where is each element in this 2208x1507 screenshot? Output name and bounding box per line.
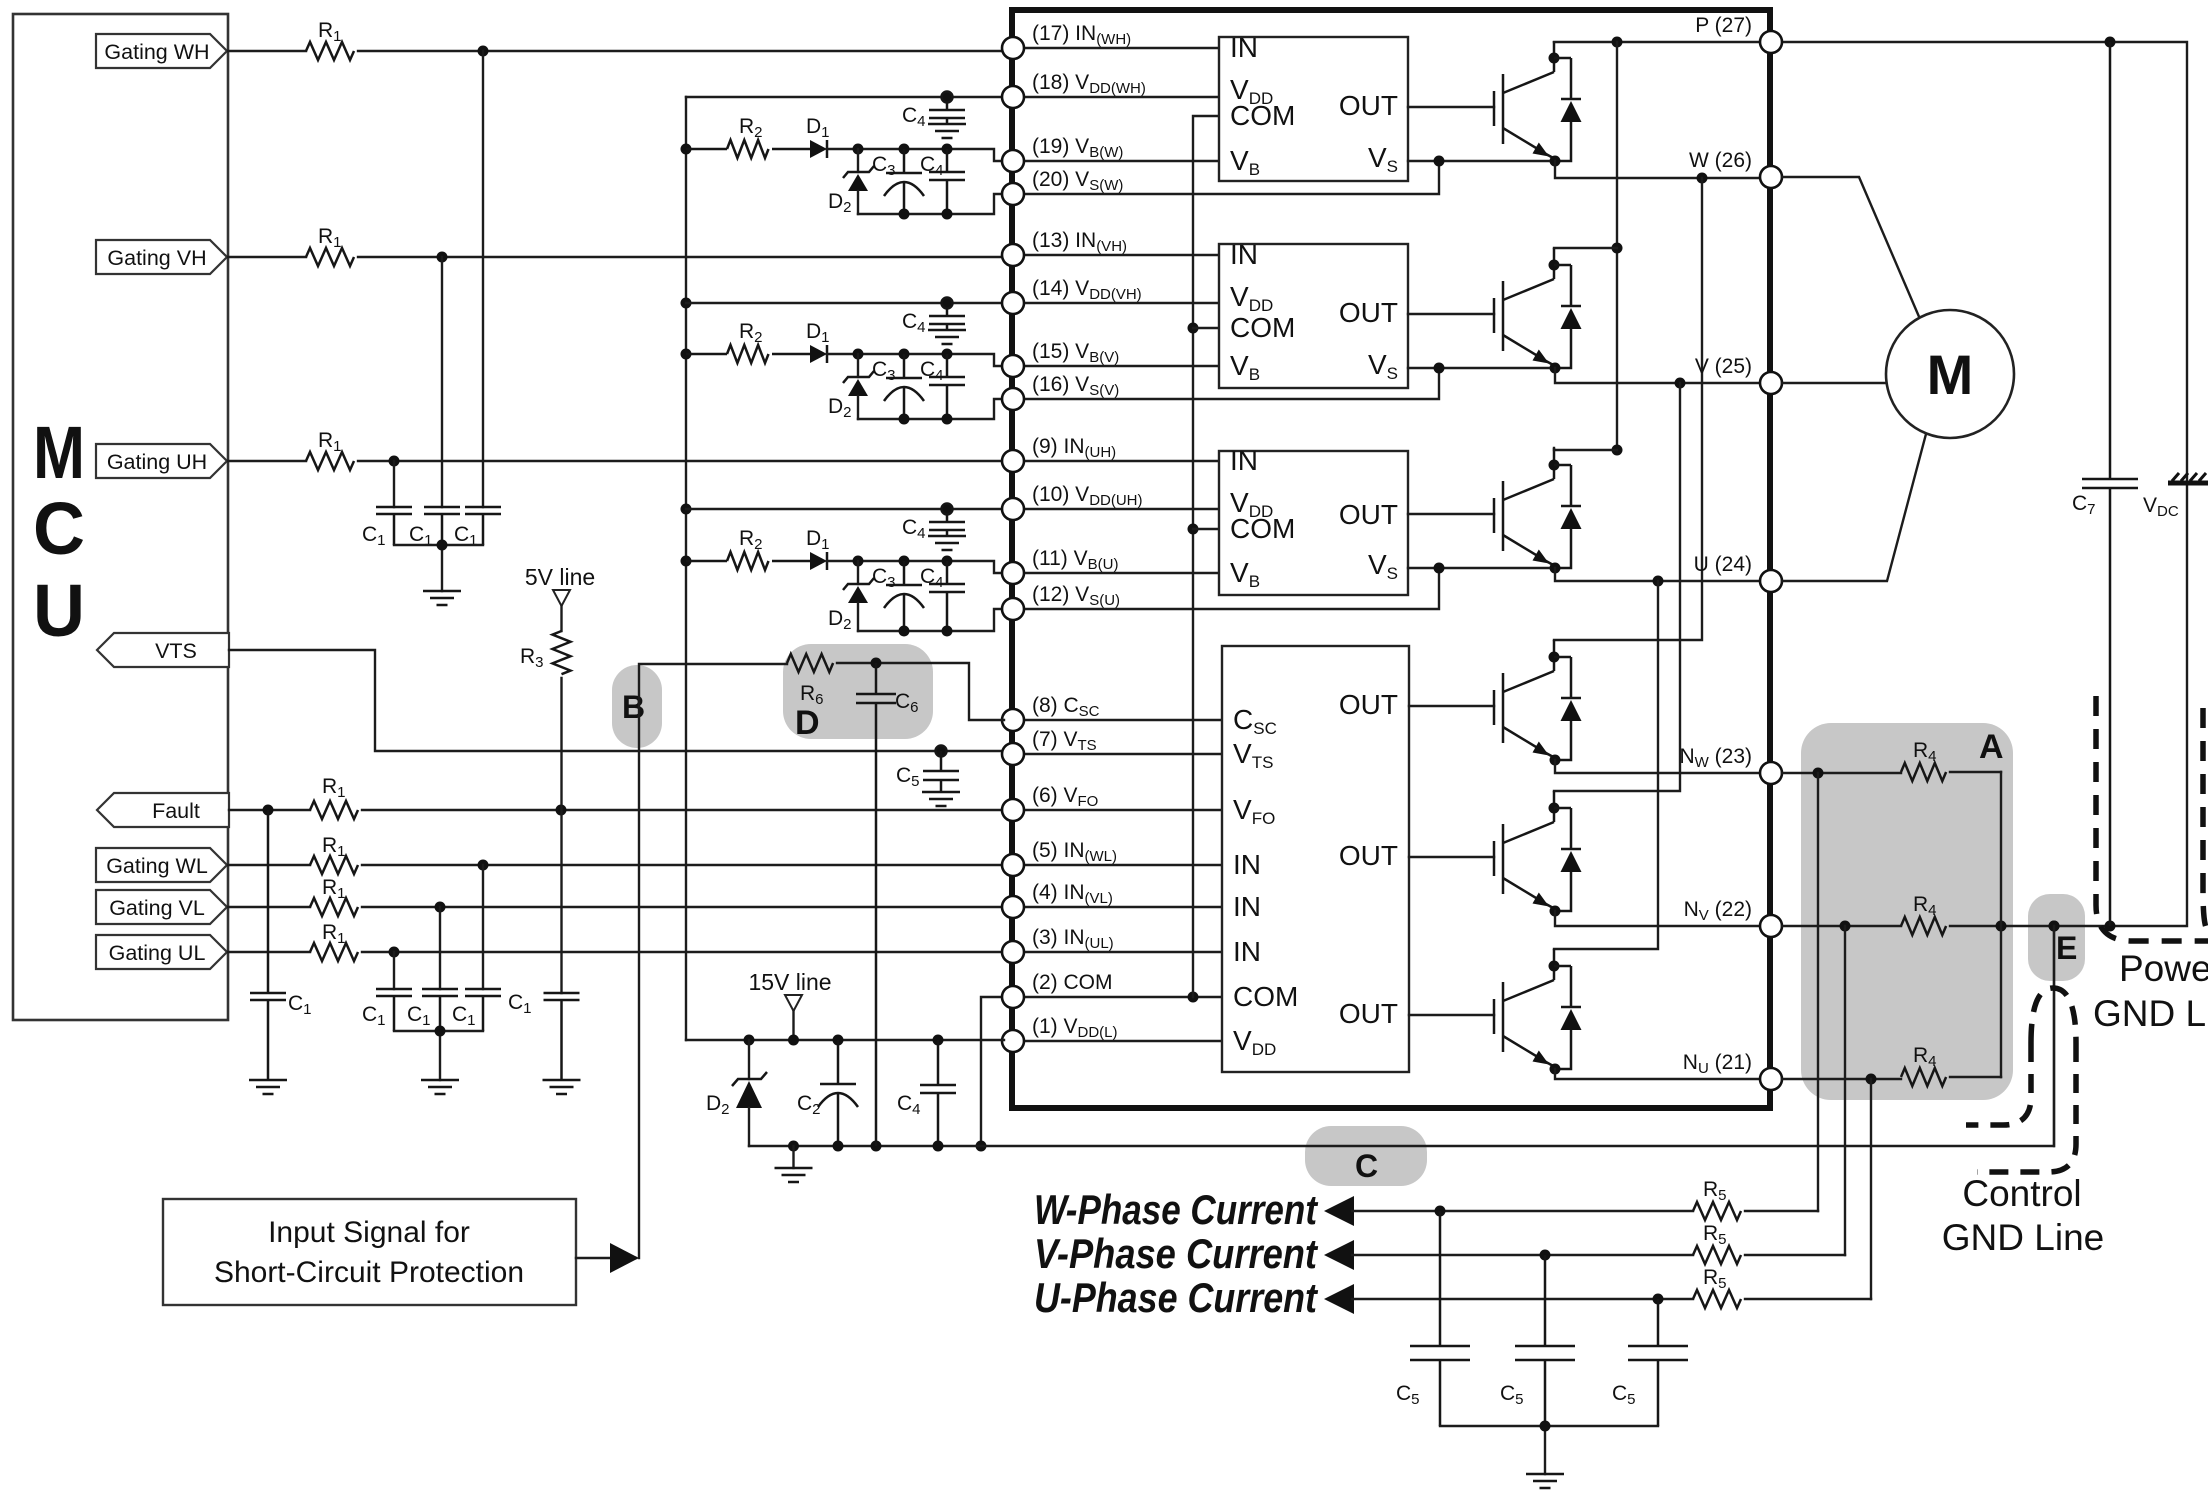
ground (C5 VTS): [922, 792, 960, 806]
svg-text:COM: COM: [1230, 100, 1295, 131]
wire pin13 IN(VH) stub: [1022, 254, 1219, 256]
capacitor C3 (bootstrap U, electrolytic): [872, 561, 924, 631]
capacitor C4 (bootstrap W): [920, 149, 965, 214]
wire V-sense vertical (x=1845): [1844, 926, 1846, 1255]
pin circle and label: (3) IN(UL): [1002, 926, 1114, 963]
wire pin15 VB stub: [1022, 365, 1219, 367]
svg-text:OUT: OUT: [1339, 297, 1398, 328]
svg-text:OUT: OUT: [1339, 840, 1398, 871]
wire C1 stems from gating WH/VH/UH lines: [394, 51, 483, 507]
capacitor C4 (VDD VH decoupling): [902, 298, 965, 337]
transistor Q1 (W high-side IGBT with freewheel diode): [1494, 41, 1582, 167]
wire NW shunt line: [1782, 768, 2001, 779]
motor M: [1886, 310, 2014, 438]
IPM module outline (thick border): [1012, 10, 1770, 1108]
pin circle and label: (19) VB(W): [1002, 135, 1123, 172]
pin circle and label: (16) VS(V): [1002, 373, 1119, 410]
svg-text:OUT: OUT: [1339, 90, 1398, 121]
svg-text:OUT: OUT: [1339, 689, 1398, 720]
wire NU emitter line: [1555, 1069, 1760, 1079]
capacitor C4 (15V decoupling): [897, 1040, 956, 1146]
pin circle and label: (7) VTS: [1002, 728, 1097, 765]
wire NV emitter line: [1555, 911, 1760, 926]
wire NV / E line: [1782, 921, 2185, 932]
pin circle and label: (17) IN(WH): [1002, 22, 1131, 59]
resistor R1 on IN(UL): [310, 921, 358, 961]
wire gate lead high-V: [1408, 313, 1494, 315]
wire VDD(UH) pin10 line: [686, 508, 1004, 510]
svg-text:Gating UH: Gating UH: [107, 450, 207, 474]
pin circle and label: (9) IN(UH): [1002, 435, 1116, 472]
pin circle and label: V (25): [1695, 355, 1782, 394]
wire pin10 VDD stub: [1022, 508, 1219, 510]
resistor R5 (V row): [1693, 1222, 1741, 1264]
zener diode D2 (bootstrap W): [828, 149, 874, 216]
capacitor C5 (x=1545 phase filter): [1500, 1255, 1575, 1426]
resistor R1 on Fault net: [310, 775, 358, 819]
resistor R5 (W row): [1693, 1178, 1741, 1220]
wire VS(U) net: [1408, 563, 1549, 574]
callout capsule D (gray): [783, 644, 933, 739]
wire W-to-lowside collector riser (x=1702): [1554, 178, 1702, 640]
zener diode D2 (bootstrap U): [828, 561, 874, 633]
wire V phase output: [1555, 368, 1760, 389]
callout capsule B (gray): [612, 665, 662, 748]
pin circle and label: (2) COM: [1002, 971, 1113, 1008]
wire C1 stems from gating WL/VL/UL lines: [394, 865, 483, 989]
svg-text:C: C: [33, 487, 85, 570]
resistor R6: [787, 654, 833, 708]
ground (top C1 group): [423, 591, 461, 605]
pin circle and label: (13) IN(VH): [1002, 229, 1127, 266]
power symbol: 5V line supply: [525, 564, 595, 631]
gate driver block U1 (WH high side): [1219, 32, 1408, 181]
ground (C4 VH decoupling): [928, 330, 966, 344]
capacitor C4 (VDD UH decoupling): [902, 504, 965, 543]
svg-text:IN: IN: [1233, 891, 1261, 922]
transistor Q3 (U high-side IGBT with freewheel diode): [1494, 448, 1582, 574]
svg-text:M: M: [33, 411, 85, 494]
wire pin4 IN(VL) stub: [1022, 906, 1222, 908]
dashed Control GND corridor: [1966, 988, 2076, 1172]
wire R6/C6 node to pin8 CSC: [837, 658, 1004, 721]
wire U-sense vertical (x=1871): [1870, 1079, 1872, 1299]
wire R4 common vertical (x=2001): [2000, 772, 2002, 1077]
wire W phase output: [1555, 161, 1760, 184]
capacitor C2 (15V electrolytic): [797, 1040, 858, 1146]
wire V-phase current line with arrow: [1324, 1240, 1845, 1270]
capacitor C6: [856, 663, 919, 1146]
pin circle and label: (6) VFO: [1002, 784, 1098, 821]
wire gate lead low-W: [1409, 705, 1494, 707]
svg-text:IN: IN: [1230, 239, 1258, 270]
ground (bottom C1 group): [421, 1080, 459, 1094]
svg-text:V (25): V (25): [1695, 355, 1752, 378]
Input Signal for Short-Circuit Protection box: [163, 1199, 576, 1305]
svg-text:U-Phase Current: U-Phase Current: [1034, 1274, 1319, 1321]
wire COM stub driver U: [1193, 528, 1219, 530]
wire 15V VDD(L) rail: [686, 1035, 1004, 1046]
wire gate lead low-U: [1409, 1014, 1494, 1016]
wire IN(VL): Gating VL wire: [228, 902, 1004, 913]
svg-text:OUT: OUT: [1339, 998, 1398, 1029]
capacitor C1 (x=394 top group): [376, 507, 412, 545]
pin circle and label: (12) VS(U): [1002, 583, 1120, 620]
gate driver block U4 (low side + protection): [1222, 646, 1409, 1072]
capacitor C1 (x=440 bottom group): [422, 989, 458, 1031]
wire IN(VH) net: Gating VH wire: [228, 252, 1004, 263]
wire U phase output: [1555, 568, 1760, 587]
wire U phase to motor: [1782, 434, 1926, 581]
wire VDD(WH) pin18 line: [686, 96, 1004, 98]
wire bootstrap V bottom bus to VS pin: [858, 399, 1004, 425]
svg-text:A: A: [1979, 728, 2004, 766]
zener diode D2 (15V clamp): [706, 1040, 767, 1146]
svg-text:U: U: [33, 569, 85, 652]
MCU port tag: VTS: [97, 633, 229, 667]
wire control-GND rail: [749, 926, 2054, 1152]
wire C1 bottom-group common bus: [394, 1026, 483, 1081]
ground (C4 WH decoupling): [928, 124, 966, 138]
MCU port tag: Gating WH: [96, 34, 227, 68]
wire pin18 VDD stub: [1022, 96, 1219, 98]
ground (control GND): [775, 1146, 813, 1182]
wire high-side collector bus (x=1617): [1612, 42, 1623, 456]
wire pin17 IN(WH) stub: [1022, 47, 1219, 49]
wire pin14 VDD stub: [1022, 302, 1219, 304]
svg-text:NU (21): NU (21): [1683, 1051, 1752, 1077]
wire pin5 IN(WL) stub: [1022, 864, 1222, 866]
svg-text:COM: COM: [1230, 312, 1295, 343]
wire pin16 VS(V) stub: [1022, 368, 1439, 399]
svg-text:D: D: [795, 704, 820, 742]
wire gate lead low-V: [1409, 856, 1494, 858]
svg-text:Gating WH: Gating WH: [104, 40, 209, 64]
resistor R4 (V shunt): [1901, 893, 1946, 935]
capacitor C3 (bootstrap W, electrolytic): [872, 149, 924, 214]
diode D1 (bootstrap W): [806, 115, 858, 158]
pin circle and label: (18) VDD(WH): [1002, 71, 1146, 108]
transistor Q2 (V high-side IGBT with freewheel diode): [1494, 248, 1582, 374]
wire V-to-lowside collector riser (x=1680): [1554, 383, 1680, 791]
gate driver block U2 (VH high side): [1219, 239, 1408, 388]
wire R3 to Fault net and C1: [560, 678, 562, 993]
gate driver block U3 (UH high side): [1219, 445, 1408, 595]
capacitor C3 (bootstrap V, electrolytic): [872, 354, 924, 419]
resistor R1 on Gating VH wire: [306, 225, 354, 266]
wire U-to-lowside collector riser (x=1658): [1554, 581, 1658, 949]
wire E to control GND (down): [2053, 926, 2055, 1146]
wire COM return from pin2 to GND rail: [976, 997, 1005, 1152]
capacitor C1 (x=483 top group): [465, 507, 501, 545]
wire gate lead high-U: [1408, 513, 1494, 515]
dashed Power GND line (right edge): [2203, 708, 2208, 930]
wire pin6 VFO stub: [1022, 809, 1222, 811]
wire IN(UL): Gating UL wire: [228, 947, 1004, 958]
wire bootstrap W bottom bus to VS pin: [858, 194, 1004, 220]
svg-text:U (24): U (24): [1694, 553, 1752, 576]
wire pin8 CSC stub: [1022, 719, 1222, 721]
svg-text:Input Signal for: Input Signal for: [268, 1216, 470, 1249]
svg-text:IN: IN: [1233, 849, 1261, 880]
pin circle and label: (1) VDD(L): [1002, 1015, 1118, 1052]
transistor Q5 (V low-side IGBT with freewheel diode): [1494, 791, 1582, 917]
svg-text:15V line: 15V line: [748, 969, 831, 995]
svg-text:NV (22): NV (22): [1684, 898, 1752, 924]
wire pin9 IN(UH) stub: [1022, 460, 1219, 462]
ground (phase filter C5s): [1526, 1474, 1564, 1488]
wire pin20 VS(W) stub: [1022, 161, 1439, 194]
svg-text:W (26): W (26): [1689, 149, 1752, 172]
wire input-signal arrow to CSC node: [576, 664, 787, 1273]
MCU port tag: Fault: [97, 793, 229, 827]
wire bootstrap U top bus: [853, 556, 1005, 574]
pin circle and label: NV (22): [1684, 898, 1782, 937]
resistor R1 on Gating UH wire: [306, 429, 354, 470]
resistor R4 (W shunt): [1901, 739, 1946, 781]
pin circle and label: (4) IN(VL): [1002, 881, 1113, 918]
resistor R2 (bootstrap V): [686, 320, 810, 363]
svg-text:Gating VL: Gating VL: [109, 896, 205, 920]
svg-text:W-Phase Current: W-Phase Current: [1034, 1186, 1319, 1233]
svg-text:Short-Circuit Protection: Short-Circuit Protection: [214, 1256, 524, 1289]
svg-text:(2) COM: (2) COM: [1032, 971, 1113, 994]
dashed Power GND line (left): [2096, 696, 2208, 941]
wire COM stub driver V: [1193, 327, 1219, 329]
pin circle and label: NW (23): [1679, 745, 1782, 784]
wire W-sense vertical (x=1818): [1817, 773, 1819, 1211]
resistor R4 (U shunt): [1901, 1044, 1946, 1086]
capacitor C7 (DC link): [2072, 42, 2138, 926]
MCU port tag: Gating VL: [96, 890, 227, 924]
wire W phase to motor: [1782, 177, 1923, 326]
wire pin19 VB stub: [1022, 160, 1219, 162]
wire V phase to motor: [1782, 382, 1886, 384]
MCU port tag: Gating VH: [96, 240, 227, 274]
svg-text:COM: COM: [1233, 981, 1298, 1012]
capacitor C1 (x=394 bottom group): [376, 989, 412, 1031]
pin circle and label: W (26): [1689, 149, 1782, 188]
resistor R1 on IN(WL): [310, 834, 358, 874]
capacitor C5 (VTS filter): [896, 746, 959, 793]
wire C1 top-group common bus: [394, 540, 483, 592]
wire U-phase current line with arrow: [1324, 1284, 1871, 1314]
wire W-phase current line with arrow: [1324, 1196, 1818, 1226]
wire C5 common bus: [1440, 1421, 1658, 1475]
pin circle and label: (10) VDD(UH): [1002, 483, 1143, 520]
svg-text:B: B: [622, 689, 645, 725]
resistor R2 (bootstrap W): [686, 115, 810, 158]
svg-text:GND Line: GND Line: [1942, 1217, 2104, 1258]
svg-text:Gating WL: Gating WL: [106, 854, 208, 878]
svg-text:V-Phase Current: V-Phase Current: [1034, 1230, 1319, 1277]
resistor R3: [520, 631, 571, 674]
pin circle and label: (8) CSC: [1002, 694, 1100, 731]
capacitor C5 (x=1658 phase filter): [1612, 1299, 1688, 1426]
wire pin3 IN(UL) stub: [1022, 951, 1222, 953]
capacitor C1 (x=442 top group): [424, 507, 460, 545]
svg-text:Control: Control: [1962, 1173, 2081, 1214]
wire Q3 collector elbow: [1554, 448, 1617, 450]
wire VS(V) net: [1408, 363, 1549, 374]
capacitor C1 (x=483 bottom group): [465, 989, 501, 1031]
wire IN(UH) net: Gating UH wire: [228, 456, 1004, 467]
wire NU shunt line: [1782, 1074, 2001, 1085]
MCU port tag: Gating UH: [96, 444, 227, 478]
svg-text:OUT: OUT: [1339, 499, 1398, 530]
capacitor C1 (right, on Fault pull-up node): [508, 991, 580, 1080]
wire bootstrap V top bus: [853, 349, 1005, 367]
wire COM bus inside IPM (x=1193): [1188, 116, 1220, 997]
wire Fault net: [229, 805, 1004, 816]
svg-text:C: C: [1355, 1148, 1378, 1184]
pin circle and label: (20) VS(W): [1002, 168, 1123, 205]
wire IN(WL): Gating WL wire: [228, 860, 1004, 871]
wire bootstrap W top bus: [853, 144, 1005, 162]
ground (left C1): [249, 1080, 287, 1094]
resistor R1 on Gating WH wire: [306, 19, 354, 60]
wire P rail (DC+): [1554, 37, 2187, 484]
MCU port tag: Gating UL: [96, 935, 227, 969]
wire NW emitter line: [1555, 760, 1760, 773]
zener diode D2 (bootstrap V): [828, 354, 874, 421]
callout capsule E (gray): [2028, 894, 2085, 981]
power symbol: 15V line supply: [748, 969, 831, 1040]
svg-text:VTS: VTS: [155, 639, 197, 663]
wire pin11 VB stub: [1022, 572, 1219, 574]
svg-text:COM: COM: [1230, 513, 1295, 544]
svg-text:GND Line: GND Line: [2093, 993, 2208, 1034]
pin circle and label: (11) VB(U): [1002, 547, 1118, 584]
transistor Q6 (U low-side IGBT with freewheel diode): [1494, 949, 1582, 1075]
pin circle and label: U (24): [1694, 553, 1782, 592]
svg-text:Gating VH: Gating VH: [107, 246, 206, 270]
svg-text:P (27): P (27): [1695, 14, 1752, 37]
pin circle and label: P (27): [1695, 14, 1782, 53]
MCU port tag: Gating WL: [96, 848, 227, 882]
wire Q2 collector elbow: [1554, 247, 1617, 249]
svg-text:5V line: 5V line: [525, 564, 595, 590]
wire IN(WH) net: Gating WH wire: [228, 46, 1004, 57]
svg-text:IN: IN: [1230, 32, 1258, 63]
diode D1 (bootstrap V): [806, 320, 858, 363]
svg-text:Power: Power: [2119, 948, 2208, 989]
wire VDD(VH) pin14 line: [686, 302, 1004, 304]
wire VDD 15V bus (x=686): [681, 97, 692, 1040]
svg-text:Gating UL: Gating UL: [109, 941, 206, 965]
ground (C4 UH decoupling): [928, 536, 966, 550]
wire pin1 VDD(L) stub: [1022, 1040, 1222, 1042]
power symbol VDC: [2143, 473, 2208, 926]
svg-text:IN: IN: [1230, 445, 1258, 476]
resistor R5 (U row): [1693, 1266, 1741, 1308]
shaded region A (shunt resistors, gray): [1801, 723, 2013, 1100]
svg-text:NW (23): NW (23): [1679, 745, 1752, 771]
wire pin7 VTS stub: [1022, 753, 1222, 755]
capacitor C5 (x=1440 phase filter): [1396, 1211, 1470, 1426]
wire VTS net (tag to pin 7): [229, 650, 1004, 751]
pin circle and label: (14) VDD(VH): [1002, 277, 1142, 314]
pin circle and label: (5) IN(WL): [1002, 839, 1117, 876]
wire bootstrap U bottom bus to VS pin: [858, 609, 1004, 637]
capacitor C4 (bootstrap V): [920, 354, 965, 419]
capacitor C4 (VDD WH decoupling): [902, 92, 965, 131]
svg-text:Fault: Fault: [152, 799, 200, 823]
ground (right C1): [543, 1080, 581, 1094]
wire gate lead high-W: [1408, 106, 1494, 108]
resistor R2 (bootstrap U): [686, 527, 810, 570]
MCU block: [13, 14, 228, 1020]
resistor R1 on IN(VL): [310, 876, 358, 916]
callout capsule C (gray): [1305, 1126, 1427, 1186]
svg-text:M: M: [1927, 343, 1974, 406]
wire pin2 COM stub: [1022, 992, 1222, 1003]
capacitor C1 (left, on Fault line): [250, 810, 312, 1080]
pin circle and label: NU (21): [1683, 1051, 1782, 1090]
capacitor C4 (bootstrap U): [920, 561, 965, 631]
transistor Q4 (W low-side IGBT with freewheel diode): [1494, 640, 1582, 766]
diode D1 (bootstrap U): [806, 527, 858, 570]
pin circle and label: (15) VB(V): [1002, 340, 1119, 377]
svg-text:E: E: [2056, 930, 2077, 966]
svg-text:IN: IN: [1233, 936, 1261, 967]
wire VS(W) net: [1408, 156, 1549, 167]
wire pin12 VS(U) stub: [1022, 568, 1439, 609]
